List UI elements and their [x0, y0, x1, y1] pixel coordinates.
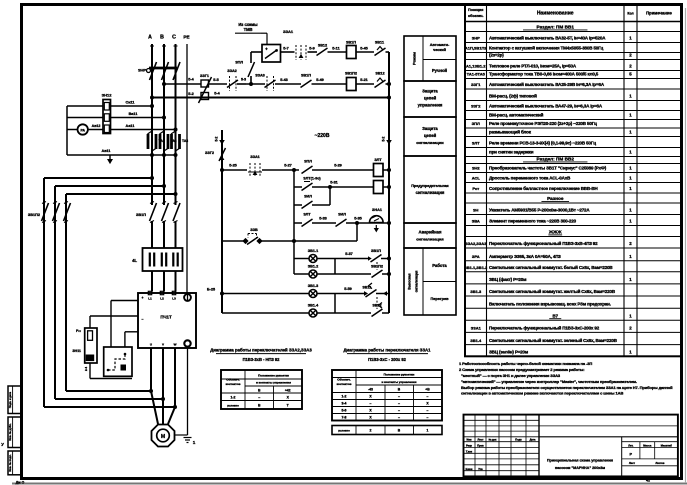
svg-text:Аа11: Аа11: [126, 124, 135, 128]
ammeter PA: [78, 124, 101, 135]
brake resistor module Rst / SN11: [72, 328, 97, 371]
svg-text:ЗН2: ЗН2: [472, 166, 480, 171]
left signal bus 5-2: [215, 130, 225, 313]
svg-text:контактов: контактов: [226, 382, 241, 386]
svg-text:ЖЖЖ: ЖЖЖ: [548, 230, 562, 235]
svg-text:Режим: Режим: [412, 52, 417, 65]
contactor coil SV1P1: [346, 41, 356, 59]
svg-text:АСL: АСL: [472, 176, 481, 181]
svg-text:ТА3: ТА3: [182, 139, 188, 143]
wire rung y84 segment: [209, 83, 228, 85]
junction node 5-4 tap: [162, 82, 166, 86]
svg-text:Рст: Рст: [76, 329, 82, 333]
pushbutton contact SV12 top: [317, 44, 328, 56]
svg-text:–: –: [398, 409, 400, 413]
svg-text:Аварийная: Аварийная: [419, 230, 442, 235]
svg-text:Контактор с катушкой включения: Контактор с катушкой включения ТМ4х5055-…: [489, 45, 604, 51]
PE wire to motor: [175, 294, 188, 435]
svg-text:L2: L2: [160, 297, 164, 301]
svg-text:ЗПЛ: ЗПЛ: [304, 160, 312, 164]
svg-text:Утв: Утв: [478, 468, 483, 471]
pushbutton SV11 with manual actuator: [375, 41, 386, 56]
svg-text:Защита: Защита: [422, 126, 438, 131]
svg-text:ческий: ческий: [433, 48, 447, 52]
svg-text:А1,1ЗВ1.2: А1,1ЗВ1.2: [466, 64, 486, 69]
wire phase C vertical: [175, 44, 177, 205]
svg-text:РА: РА: [80, 128, 85, 132]
svg-text:Сопротивление балластное перек: Сопротивление балластное переключение ВВ…: [489, 185, 598, 191]
relay coil ZIL: [374, 181, 384, 194]
right diagram table: [332, 370, 442, 421]
wire Aa11: [111, 129, 176, 131]
svg-text:5-27: 5-27: [284, 164, 292, 168]
svg-text:Трансформатор тока ТВ0-0,66 I: Трансформатор тока ТВ0-0,66 Iном=400А 50…: [489, 71, 599, 77]
right signal bus: [382, 98, 392, 314]
functional column: control protection: [404, 81, 456, 117]
svg-text:Обознач.: Обознач.: [226, 378, 240, 382]
rung 2 y187: [294, 177, 374, 191]
pushbutton SV12 lower: [375, 72, 386, 88]
svg-text:Светильник сигнальный коммутат: Светильник сигнальный коммутат. желтый С…: [489, 288, 616, 294]
svg-text:ЗВ1.3: ЗВ1.3: [308, 284, 318, 288]
svg-text:С: С: [172, 35, 176, 41]
svg-text:ЗВ1П: ЗВ1П: [371, 249, 381, 253]
notes text block: [459, 361, 673, 396]
svg-text:7-8: 7-8: [342, 416, 347, 420]
svg-text:ЗЛТ: ЗЛТ: [303, 213, 311, 217]
svg-text:Позиция: Позиция: [468, 8, 483, 12]
svg-text:Принципиальная схема управлени: Принципиальная схема управления: [547, 459, 613, 463]
svg-text:ЗВ1.2: ЗВ1.2: [308, 265, 318, 269]
svg-text:ВМ-расц. автоматический: ВМ-расц. автоматический: [489, 112, 544, 118]
svg-text:–: –: [370, 402, 372, 406]
time relay coil SLT: [374, 158, 384, 177]
svg-text:М: М: [161, 434, 165, 440]
svg-text:5-2: 5-2: [215, 136, 219, 141]
cam switch contact SSA3 (dashed): [255, 74, 275, 92]
wire phase B vertical: [163, 44, 165, 205]
contactor aux contact SV1P: [301, 74, 312, 88]
svg-text:№ док: № док: [489, 439, 498, 442]
svg-text:Подп: Подп: [515, 439, 522, 442]
svg-text:Ав12: Ав12: [92, 124, 101, 128]
svg-text:сигнализация: сигнализация: [415, 270, 419, 292]
svg-text:ЗИЛ: ЗИЛ: [338, 213, 346, 217]
svg-text:ЗЗА1: ЗЗА1: [471, 326, 482, 331]
svg-text:Рст: Рст: [472, 186, 479, 191]
svg-text:5-37: 5-37: [345, 252, 353, 256]
svg-text:сигнализация: сигнализация: [416, 237, 444, 242]
svg-text:Выносная: Выносная: [408, 273, 412, 289]
svg-text:Амперметр Э365, 3кА 0А=50А,: Амперметр Э365, 3кА 0А=50А, 4П3: [489, 254, 561, 259]
svg-text:2: 2: [370, 429, 372, 433]
svg-text:Обознач.: Обознач.: [337, 378, 351, 382]
svg-text:W: W: [174, 343, 177, 347]
svg-text:ЗВ1.3: ЗВ1.3: [470, 289, 482, 294]
svg-text:1: 1: [427, 429, 429, 433]
converter control terminal wires: [90, 296, 144, 347]
svg-text:3-4: 3-4: [342, 402, 347, 406]
svg-text:Т.кон: Т.кон: [466, 450, 473, 453]
svg-text:42: 42: [646, 478, 650, 482]
svg-text:5-35: 5-35: [354, 217, 362, 221]
functional column: alarm signal: [404, 223, 456, 248]
bypass loop wire 2: [55, 184, 166, 399]
svg-text:+В: +В: [425, 387, 430, 391]
svg-text:Лит.: Лит.: [628, 443, 633, 447]
svg-text:Элемент переменного тока ~220: Элемент переменного тока ~220В 300-220: [489, 219, 577, 224]
svg-text:Ав11: Ав11: [101, 149, 110, 153]
svg-text:В: В: [160, 35, 164, 41]
svg-text:Подп. и дата: Подп. и дата: [8, 391, 12, 408]
svg-text:ЗРА: ЗРА: [472, 254, 480, 259]
svg-text:Диаграмма работы переключателе: Диаграмма работы переключателей ЗЗА2,ЗЗА…: [210, 348, 312, 353]
svg-text:Светильник сигнальный коммутат: Светильник сигнальный коммутат. зеленый …: [489, 337, 618, 343]
spec table rows: [465, 31, 681, 33]
bypass loop wire 1: [44, 176, 176, 407]
indicator lamp SV1.2 rung y274: [294, 265, 391, 279]
svg-text:ЗЗА3: ЗЗА3: [255, 74, 265, 78]
svg-text:У: У: [1, 442, 4, 447]
svg-text:ЗВ1П: ЗВ1П: [136, 213, 146, 217]
svg-text:5-25: 5-25: [229, 164, 237, 168]
svg-text:Преобразователь частоты ЗВ1Т ": Преобразователь частоты ЗВ1Т "Сириус" С2…: [489, 165, 607, 171]
spec table header: [468, 8, 672, 18]
svg-text:Примечание: Примечание: [646, 11, 672, 16]
breaker ZZG2 on left bus: [205, 148, 226, 161]
svg-text:+42: +42: [285, 388, 291, 392]
svg-text:1: 1: [193, 440, 196, 445]
title block revision grid: [464, 415, 540, 477]
svg-text:"автоматический" — управлени: "автоматический" — управление через конт…: [461, 379, 637, 384]
control module (dashed internals): [104, 347, 132, 376]
svg-text:ЗВА: ЗВА: [472, 219, 480, 224]
svg-text:U: U: [150, 343, 152, 347]
wire Ba11: [111, 117, 165, 119]
svg-text:ЗВ1П2: ЗВ1П2: [345, 72, 357, 76]
wires reactor to converter: [151, 271, 153, 292]
svg-text:1-2: 1-2: [342, 395, 347, 399]
svg-text:Разр: Разр: [466, 445, 472, 448]
svg-text:5-3: 5-3: [241, 78, 246, 82]
current transformer TA3: [171, 131, 188, 151]
svg-text:Р: Р: [630, 453, 633, 457]
wire 5-5 branch rung y84: [164, 83, 201, 85]
svg-text:+: +: [265, 47, 268, 52]
margin stamp box 3: [8, 451, 22, 475]
svg-text:ЗНР: ЗНР: [472, 36, 480, 41]
svg-text:обознач.: обознач.: [468, 14, 484, 18]
lamp link vertical: [334, 259, 336, 275]
svg-text:Указатель АМ5931/В55 Р-200х0м-: Указатель АМ5931/В55 Р-200х0м-3000,1Вт ~…: [489, 208, 590, 213]
svg-text:и контакты управления: и контакты управления: [381, 380, 416, 384]
title block document name: [547, 459, 613, 471]
motor supply wires: [149, 348, 177, 424]
branch vertical: [293, 170, 295, 274]
svg-text:ЗЗГ2: ЗЗГ2: [471, 104, 481, 109]
svg-text:Реле времени РСВ-13-3-9Х(4) (: Реле времени РСВ-13-3-9Х(4) (0,1-99,9с) …: [489, 141, 596, 146]
functional column: mode section: [404, 36, 456, 81]
svg-text:Си11: Си11: [125, 100, 134, 104]
rung 3 y205 parallel contact: [294, 185, 332, 209]
svg-text:ЗВ1.1: ЗВ1.1: [308, 249, 318, 253]
wire Cu11: [111, 105, 153, 107]
svg-text:2 Схема управления насосом пр: 2 Схема управления насосом предусматрива…: [459, 367, 584, 372]
circuit breaker ZZG1: [199, 74, 212, 103]
svg-text:5-33: 5-33: [319, 217, 327, 221]
connector SN12: [102, 93, 113, 134]
svg-text:(2з+2р): (2з+2р): [489, 53, 504, 58]
svg-text:ЗВ12: ЗВ12: [318, 44, 327, 48]
wire phase A vertical: [151, 44, 153, 205]
relay contact ZPL r1: [302, 160, 313, 174]
wire rung y84 right part: [246, 83, 265, 85]
svg-text:Диаграмма работы переключателя: Диаграмма работы переключателя ЗЗА1: [343, 348, 431, 353]
module link wire: [89, 363, 91, 379]
svg-text:Автоматический выключатель ВА3: Автоматический выключатель ВА32-5Т, Iн=4…: [489, 35, 606, 41]
svg-text:Разное: Разное: [547, 196, 564, 201]
svg-text:Перегрев: Перегрев: [430, 296, 449, 301]
svg-text:ЗЗГ1: ЗЗГ1: [200, 74, 209, 78]
svg-text:ЗЗВ: ЗЗВ: [250, 228, 258, 232]
svg-text:1 Работоспособность работы ч: 1 Работоспособность работы черно-белой с…: [459, 361, 592, 366]
margin stamp box 1: [8, 386, 22, 414]
svg-text:ЗНР: ЗНР: [138, 68, 146, 73]
svg-text:Реле промежуточное РЭП20-220 (: Реле промежуточное РЭП20-220 (2з+2р) ~22…: [489, 121, 597, 126]
functional column: remote signalling: [404, 248, 456, 315]
svg-text:ПЧ1Т: ПЧ1Т: [160, 315, 172, 320]
svg-text:Н.кон: Н.кон: [466, 468, 473, 471]
svg-text:ЗВ1П2: ЗВ1П2: [28, 213, 40, 217]
svg-text:ЗН12: ЗН12: [102, 93, 113, 98]
svg-text:размыкающий блок: размыкающий блок: [489, 129, 532, 135]
svg-text:Листов: Листов: [656, 462, 665, 465]
svg-text:ТА1-5ТА5: ТА1-5ТА5: [467, 72, 486, 77]
svg-text:Переключатель функциональный П: Переключатель функциональный П1ВЗ-3хС-20…: [489, 325, 600, 331]
left diagram table: [221, 370, 302, 409]
svg-text:5-4: 5-4: [214, 92, 220, 96]
svg-text:Масса: Масса: [643, 443, 652, 447]
svg-text:управления: управления: [418, 103, 443, 108]
svg-text:насосом "МАРИНА" 200х8м: насосом "МАРИНА" 200х8м: [555, 466, 605, 470]
functional column: warning signal: [404, 156, 456, 223]
svg-text:цепей: цепей: [424, 96, 437, 101]
svg-text:Раздел: ПМ ВВ1: Раздел: ПМ ВВ1: [537, 25, 575, 30]
svg-text:Автоматический выключатель ВА4: Автоматический выключатель ВА47-29, Iн=6…: [489, 103, 603, 109]
svg-text:сигнализации в автоматическом: сигнализации в автоматическом режиме вкл…: [461, 391, 623, 396]
svg-text:Дм О: Дм О: [16, 481, 25, 485]
svg-text:Автоматический выключатель ВА2: Автоматический выключатель ВА25-29В Iн=6…: [489, 81, 605, 87]
svg-text:Дроссель переменного тока АСL-: Дроссель переменного тока АСL-0АхВ: [489, 176, 571, 181]
svg-text:ЗЗГ1: ЗЗГ1: [471, 82, 481, 87]
rung 1 y170: [220, 164, 247, 172]
measuring loop left box: [67, 106, 176, 155]
svg-text:ЗЗА2: ЗЗА2: [227, 69, 237, 73]
svg-text:ЗВ11: ЗВ11: [375, 41, 384, 45]
svg-text:условно: условно: [338, 429, 350, 433]
svg-text:5-43: 5-43: [280, 78, 288, 82]
svg-text:–: –: [398, 416, 400, 420]
svg-text:Раздел: ПМ ВВ2: Раздел: ПМ ВВ2: [537, 157, 575, 162]
svg-text:–: –: [427, 416, 429, 420]
svg-text:Работа: Работа: [432, 263, 447, 268]
svg-text:ЗНА1: ЗНА1: [372, 208, 382, 212]
svg-text:ЗВ12: ЗВ12: [375, 72, 384, 76]
svg-text:ЗВ1П: ЗВ1П: [346, 41, 356, 45]
svg-text:1-2: 1-2: [231, 395, 236, 399]
indicator lamp SV1.3 rung y293.5: [207, 283, 389, 298]
svg-text:ЗВ1П: ЗВ1П: [301, 74, 311, 78]
ground symbol: [184, 438, 196, 446]
svg-text:Переключатель функциональный П: Переключатель функциональный П1ВЗ-3хВ-4П…: [489, 240, 598, 246]
svg-text:ЗВЦ (факт) Р=20м: ЗВЦ (факт) Р=20м: [489, 276, 527, 282]
svg-text:5-9: 5-9: [309, 46, 315, 50]
svg-text:ЗЛТ(1-9с): ЗЛТ(1-9с): [303, 177, 321, 181]
svg-text:Из схемы: Из схемы: [238, 22, 258, 27]
svg-text:L3: L3: [172, 297, 176, 301]
svg-text:Положение рукоятки: Положение рукоятки: [384, 372, 415, 376]
rung 5 y241 with float switch SSV: [222, 223, 357, 245]
svg-text:Тепловое реле РТЛ-010, Iном=2: Тепловое реле РТЛ-010, Iном=25А, Iр=50А: [489, 64, 577, 69]
right diagram table footer row: [332, 426, 442, 435]
title block outer: [464, 415, 678, 477]
svg-text:ЗЗА1: ЗЗА1: [250, 155, 260, 159]
rung 4 y223: [294, 213, 391, 227]
svg-text:5-6: 5-6: [342, 409, 347, 413]
svg-text:ЗВ1.4: ЗВ1.4: [470, 338, 482, 343]
current transformer TA1: [148, 131, 165, 151]
svg-text:Масштаб: Масштаб: [661, 444, 673, 447]
input terminal ticks: [150, 45, 154, 47]
indicator lamp SV1.1 rung y258.5: [294, 249, 391, 263]
svg-text:5-7: 5-7: [283, 46, 289, 50]
wire 5-2 rung y97.5: [152, 97, 389, 99]
svg-text:Лист: Лист: [629, 462, 636, 465]
svg-text:Выбор режима работы преобразов: Выбор режима работы преобразователя осущ…: [461, 385, 673, 390]
svg-text:–: –: [398, 402, 400, 406]
bypass loop wire 3: [66, 192, 178, 391]
wire rung y52: [251, 51, 262, 53]
lamp link vertical 2: [334, 294, 336, 314]
wire Av11 with ground arrow: [101, 149, 177, 164]
handwritten marks: [1, 442, 24, 485]
svg-text:V: V: [162, 343, 164, 347]
left diagram table title: [210, 348, 312, 363]
svg-text:5-59: 5-59: [344, 287, 352, 291]
svg-text:5-49: 5-49: [316, 78, 324, 82]
svg-text:ЗЗГ2: ЗЗГ2: [205, 151, 214, 155]
svg-text:ЗВЦ (зелён) Р=20м: ЗВЦ (зелён) Р=20м: [489, 350, 529, 355]
svg-text:ЗПЛ: ЗПЛ: [472, 121, 480, 126]
svg-text:Наименование: Наименование: [537, 11, 574, 17]
svg-text:ЗЗА2,ЗЗА3: ЗЗА2,ЗЗА3: [465, 241, 487, 246]
functional column: signal protection: [404, 117, 456, 156]
wire to branch node: [262, 169, 299, 171]
revision header labels: [466, 438, 536, 471]
phase labels A B C PE: [148, 35, 189, 41]
relay contact ZPL vertical link: [235, 52, 254, 86]
sheet reference: from circuit TMV: [235, 22, 267, 45]
frequency converter PCh1 box: [138, 291, 196, 348]
svg-text:5-5: 5-5: [213, 78, 219, 82]
svg-text:П1В3-3хВ - НП3 92: П1В3-3хВ - НП3 92: [243, 357, 281, 362]
svg-text:Инв. № дубл.: Инв. № дубл.: [8, 423, 12, 440]
svg-text:П1В3-3хС - 200х 92: П1В3-3хС - 200х 92: [368, 357, 406, 362]
motor M1: [152, 425, 175, 447]
title block right part: [539, 426, 678, 482]
cam switch SSA1 contact (dashed): [248, 155, 262, 177]
cam switch contact SSA2 (dashed): [227, 69, 238, 91]
spec table outer: [465, 4, 681, 356]
svg-text:Пров: Пров: [477, 445, 484, 448]
svg-text:–: –: [258, 395, 260, 399]
svg-text:Включатель положения взрывозащ: Включатель положения взрывозащ. всех РЗм…: [489, 301, 611, 306]
svg-text:ЗЛТ: ЗЛТ: [472, 141, 480, 146]
svg-text:~220В: ~220В: [315, 133, 330, 139]
svg-text:2-4: 2-4: [84, 367, 88, 371]
svg-text:–: –: [398, 395, 400, 399]
svg-text:Б-25: Б-25: [207, 287, 215, 291]
svg-text:и контакты управления: и контакты управления: [256, 380, 291, 384]
indicator lamp SV1.4 rung y313: [222, 303, 389, 318]
svg-text:Положение рукоятки: Положение рукоятки: [258, 373, 289, 377]
line reactor 4L: [132, 248, 182, 271]
svg-text:5-4: 5-4: [188, 78, 194, 82]
svg-text:сигнализации: сигнализации: [416, 140, 444, 145]
circuit breaker SNR (QF main): [138, 57, 180, 80]
cam switch SSA1 top (dashed): [283, 29, 306, 60]
svg-text:РЕ: РЕ: [183, 35, 189, 40]
svg-text:ЗПЛ: ЗПЛ: [235, 61, 243, 65]
svg-text:Защита: Защита: [422, 89, 438, 94]
margin stamp box 2: [8, 417, 22, 448]
svg-text:ЗН: ЗН: [473, 208, 479, 213]
svg-text:В7: В7: [552, 314, 558, 319]
svg-text:Светильник сигнальный коммутат: Светильник сигнальный коммутат. белый Сх…: [489, 264, 613, 270]
right control return bus: [388, 52, 390, 98]
svg-text:Изм: Изм: [466, 438, 471, 442]
junction node 5-2 tap: [150, 96, 154, 100]
svg-text:А1П,ЗВ1П2: А1П,ЗВ1П2: [465, 46, 488, 51]
alarm buzzer SNA1: [370, 208, 384, 232]
contactor SV1P2 poles on bypass: [28, 202, 71, 223]
svg-text:5-21: 5-21: [360, 78, 368, 82]
svg-text:Ручной: Ручной: [432, 68, 448, 73]
svg-text:5-2: 5-2: [188, 92, 194, 96]
svg-text:4L: 4L: [132, 258, 137, 263]
svg-text:при снятии задержки: при снятии задержки: [489, 150, 534, 155]
svg-text:L1: L1: [148, 297, 152, 301]
svg-text:5-31: 5-31: [330, 181, 338, 185]
svg-text:контактов: контактов: [337, 382, 352, 386]
svg-text:5-29: 5-29: [334, 164, 342, 168]
svg-text:+: +: [141, 296, 143, 300]
svg-text:-43: -43: [368, 387, 373, 391]
svg-text:ЗЛТ: ЗЛТ: [374, 158, 382, 162]
svg-text:цепей: цепей: [424, 133, 437, 138]
right diagram table title: [343, 348, 431, 363]
svg-text:ВМ-расц. (2ф) типовой: ВМ-расц. (2ф) типовой: [489, 93, 537, 99]
selector block box SV1: [262, 45, 281, 63]
svg-text:ЗВ1П2: ЗВ1П2: [371, 265, 383, 269]
svg-text:"местный" — с порта ЗН1 и да: "местный" — с порта ЗН1 и далее управлен…: [461, 373, 561, 378]
svg-text:Предупредительная: Предупредительная: [411, 184, 448, 188]
svg-text:ЗИЛ: ЗИЛ: [304, 195, 312, 199]
svg-text:5-2: 5-2: [382, 136, 386, 141]
svg-text:А: А: [148, 35, 152, 41]
svg-text:5-11: 5-11: [332, 46, 339, 50]
svg-text:5-45: 5-45: [360, 46, 368, 50]
